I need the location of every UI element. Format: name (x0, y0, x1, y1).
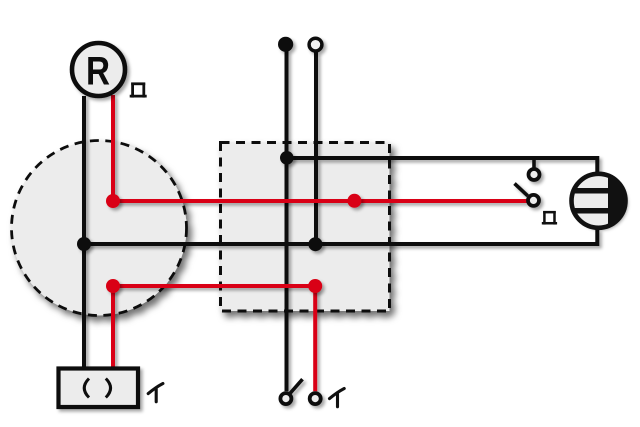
wire: black neutral from lamp R through junction to fluorescent lamp (82, 96, 86, 369)
label i (katakana) for fluorescent lamp (148, 384, 163, 402)
outlet box (dashed circle junction box) (12, 141, 187, 316)
wire: red from lamp R down to junction (111, 95, 115, 201)
wire: black live from source down to switch i (285, 51, 289, 391)
junction: black dot in outlet box (77, 237, 91, 251)
wire: black neutral from source to joint (314, 52, 318, 245)
junction: red dot in joint box on switch ro line (347, 194, 361, 208)
ceiling lamp (striped circle icon) (569, 171, 630, 233)
junction: red dot lower in outlet box (106, 279, 120, 293)
power source neutral terminal (309, 38, 322, 51)
wire: black neutral bus to right lamp (84, 229, 597, 244)
wire: black live bus to switch ro and right lamp (287, 158, 598, 173)
wire: red lower junction across to joint box (113, 284, 315, 288)
junction: black dot live in joint box (280, 151, 294, 165)
junction: red dot in joint box to switch i (308, 279, 322, 293)
fluorescent lamp i (box with parentheses) (59, 369, 139, 408)
switch i (280, 379, 320, 404)
label i (katakana) for switch i (330, 389, 345, 407)
wire: red junction to switch ro (113, 199, 527, 203)
label ro (katakana) for lamp R (130, 83, 147, 98)
joint box (dashed square) (221, 143, 390, 312)
label ro (katakana) for switch ro (542, 211, 557, 225)
switch ro (515, 169, 540, 206)
wire: stub to switch ro (532, 158, 536, 169)
junction: red dot upper in outlet box (106, 194, 120, 208)
junction: black dot neutral in joint box (308, 237, 322, 251)
wire: red down to fluorescent lamp (111, 286, 115, 369)
lamp receptacle R (72, 43, 125, 96)
wire: red from joint box down to switch i (313, 286, 317, 391)
svg-text:R: R (86, 49, 110, 93)
power source live terminal (278, 37, 293, 52)
